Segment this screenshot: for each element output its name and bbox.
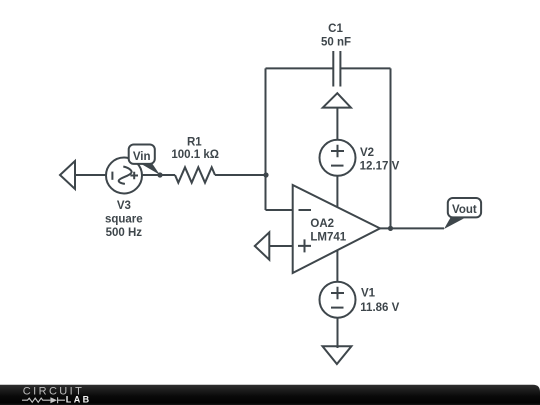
node junction at Vin	[157, 172, 162, 177]
resistor R1	[175, 167, 215, 182]
wire op-amp V- pin to V1	[336, 250, 338, 282]
net flag arrow left of V3	[60, 161, 75, 189]
svg-text:500 Hz: 500 Hz	[106, 227, 143, 239]
logo diode	[50, 397, 57, 403]
svg-text:V1: V1	[361, 288, 376, 300]
wire V2 to op-amp V+ pin	[336, 176, 338, 208]
Vin flag tail	[140, 163, 160, 175]
wire feedback top left	[266, 67, 334, 69]
node junction at output	[388, 226, 393, 231]
svg-text:11.86 V: 11.86 V	[360, 302, 399, 314]
V3 square-wave glyph	[119, 167, 132, 184]
Vout flag tail	[444, 218, 464, 229]
svg-text:12.17 V: 12.17 V	[360, 161, 400, 173]
Vout flag box	[448, 198, 481, 217]
svg-text:C1: C1	[328, 23, 343, 35]
power flag arrow above V2	[323, 93, 351, 107]
node junction at inverting input	[263, 172, 268, 177]
V3 plus mark	[130, 172, 138, 180]
wire R1 to inverting node	[215, 174, 266, 176]
capacitor C1	[333, 51, 340, 87]
wire V1 to ground	[337, 318, 339, 348]
voltage source V1	[320, 282, 356, 318]
svg-text:V2: V2	[360, 147, 374, 159]
V2 minus mark	[331, 165, 344, 167]
svg-text:Vin: Vin	[133, 151, 151, 163]
logo resistor zigzag	[22, 398, 50, 402]
voltage source V3	[106, 158, 142, 194]
wire vertical feedback right	[390, 68, 392, 228]
V2 plus mark	[331, 145, 344, 158]
ground symbol	[323, 346, 352, 364]
wire feedback top right	[340, 67, 390, 69]
svg-text:square: square	[105, 214, 143, 226]
svg-text:LAB: LAB	[66, 395, 92, 405]
svg-text:R1: R1	[187, 136, 202, 148]
Vin flag box	[129, 145, 155, 164]
V3 minus mark	[111, 172, 113, 180]
wire op-amp output to Vout	[380, 227, 444, 229]
op-amp OA2 body	[293, 185, 380, 273]
wire arrow to V2	[336, 108, 338, 140]
svg-text:Vout: Vout	[452, 204, 477, 216]
svg-text:100.1 kΩ: 100.1 kΩ	[171, 149, 219, 161]
footer logo bar	[0, 385, 540, 405]
op-amp minus input mark	[299, 209, 312, 211]
wire flag to op-amp plus input	[269, 245, 292, 247]
svg-text:LM741: LM741	[310, 231, 346, 243]
op-amp plus input mark	[298, 239, 311, 252]
svg-text:50 nF: 50 nF	[321, 36, 351, 48]
wire flag to V3	[75, 174, 106, 176]
V1 plus mark	[331, 287, 344, 300]
wire to op-amp inverting input	[266, 209, 293, 211]
svg-text:V3: V3	[117, 200, 131, 212]
voltage source V2	[320, 140, 356, 176]
wire V3 to node	[142, 174, 175, 176]
V1 minus mark	[331, 307, 344, 309]
svg-text:OA2: OA2	[310, 218, 334, 230]
net flag arrow at non-inverting input	[255, 232, 269, 259]
wire vertical feedback left	[265, 68, 267, 210]
